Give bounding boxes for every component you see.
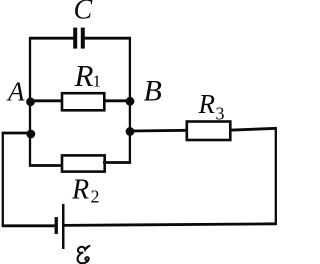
wire top-left horizontal (left branch to capacitor): [30, 37, 74, 40]
wire R3 left lead (from right-lower junction): [130, 129, 188, 132]
svg-text:R: R: [74, 58, 94, 93]
wire left-lower horizontal (outer wire to junction): [2, 132, 31, 135]
wire R1 right lead: [103, 99, 131, 102]
label R2: [71, 175, 100, 207]
svg-text:A: A: [6, 77, 25, 107]
wire left inner vertical (top corner through A down to R2 branch corner): [29, 37, 31, 167]
wire bottom horizontal left (left corner to battery): [2, 224, 55, 227]
svg-text:R: R: [71, 175, 89, 206]
wire R2 right lead: [103, 161, 131, 164]
label R1: [74, 58, 102, 93]
wire R2 left lead: [29, 164, 64, 167]
wire left outer vertical: [2, 132, 4, 227]
node B junction dot: [126, 97, 135, 106]
svg-text:1: 1: [93, 72, 102, 91]
label R3: [198, 89, 225, 124]
node A junction dot: [26, 97, 35, 106]
battery positive plate (long): [62, 204, 65, 249]
battery negative plate (short): [55, 217, 58, 234]
node right-lower junction dot: [126, 127, 135, 136]
label EMF script-E: [78, 245, 90, 263]
resistor R1: [62, 93, 104, 110]
capacitor C left plate: [73, 28, 77, 49]
wire R1 left lead: [30, 99, 64, 102]
resistor R2: [62, 155, 105, 171]
wire bottom horizontal right (battery to right corner): [64, 224, 277, 226]
wire right outer vertical: [275, 127, 277, 225]
svg-text:3: 3: [216, 104, 225, 124]
wire right inner vertical (top corner through B down to R2 branch corner): [129, 37, 131, 164]
wire R3 right lead: [229, 128, 277, 130]
svg-text:R: R: [198, 89, 216, 119]
svg-text:B: B: [144, 75, 162, 108]
svg-text:C: C: [74, 0, 93, 26]
node left-lower junction dot: [26, 130, 35, 139]
capacitor C right plate: [81, 28, 85, 49]
wire top-right horizontal (capacitor to right branch): [84, 37, 131, 40]
resistor R3: [187, 122, 231, 141]
svg-text:2: 2: [91, 187, 100, 207]
